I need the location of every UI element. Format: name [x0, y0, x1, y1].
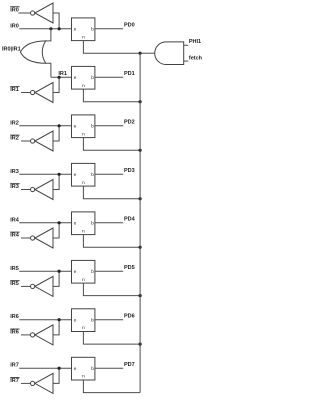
- wire: latch L0 output to PD0: [95, 28, 123, 30]
- wire: IR4 line into latch: [19, 222, 71, 224]
- svg-text:PD5: PD5: [124, 265, 135, 271]
- svg-text:b: b: [91, 318, 94, 323]
- wire: latch L4 output to PD4: [95, 222, 123, 224]
- svg-text:n: n: [82, 180, 85, 185]
- inverter U6 (output bubble, triangle): [30, 276, 53, 296]
- wire: IR0 line into latch: [19, 28, 71, 30]
- junction: enable row 6 on bus: [139, 343, 142, 346]
- svg-text:PD1: PD1: [124, 71, 135, 77]
- inverter U5 (output bubble, triangle): [30, 228, 53, 248]
- svg-text:fetch: fetch: [189, 55, 202, 61]
- wire: inverter U2 input up to IR1 line: [53, 77, 59, 92]
- net label nIR4 (complement of IR4, overline): [10, 232, 20, 239]
- inverter U4 (output bubble, triangle): [30, 180, 53, 200]
- svg-text:IR1: IR1: [10, 87, 19, 93]
- wire: nIR5 label to inverter bubble: [21, 285, 31, 287]
- latch L5 (D-latch box): [72, 260, 95, 283]
- svg-text:IR4: IR4: [10, 233, 20, 239]
- svg-text:b: b: [91, 27, 94, 32]
- wire: latch L1 output to PD1: [95, 76, 123, 78]
- wire: latch L2 output to PD2: [95, 125, 123, 127]
- wire: IR5 line into latch: [19, 270, 71, 272]
- wire: inverter U5 input up to IR4 line: [53, 223, 59, 238]
- svg-text:PD7: PD7: [124, 362, 135, 368]
- wire: nIR7 label to inverter bubble: [21, 382, 31, 384]
- svg-text:b: b: [91, 124, 94, 129]
- or-gate U9 (left-pointing, output IR0|IR1): [20, 41, 45, 63]
- latch L1 (D-latch box): [72, 66, 95, 89]
- svg-text:n: n: [82, 131, 85, 136]
- latch L6 (D-latch box): [72, 309, 95, 332]
- svg-text:n: n: [82, 34, 85, 39]
- svg-text:e: e: [74, 366, 77, 371]
- svg-text:PD3: PD3: [124, 168, 135, 174]
- wire: OR bottom input to IR1 line: [46, 63, 51, 77]
- svg-text:IR3: IR3: [10, 169, 19, 175]
- wire: OR top input to IR0 line: [46, 29, 51, 41]
- svg-text:e: e: [74, 269, 77, 274]
- svg-text:n: n: [82, 374, 85, 379]
- wire: latch L3 output to PD3: [95, 173, 123, 175]
- svg-text:n: n: [82, 277, 85, 282]
- svg-text:n: n: [82, 83, 85, 88]
- wire: vertical enable bus: [139, 53, 141, 392]
- svg-text:e: e: [74, 172, 77, 177]
- svg-text:b: b: [91, 221, 94, 226]
- junction: inverter tap on IR5 line: [58, 270, 61, 273]
- junction: enable row 5 on bus: [139, 294, 142, 297]
- wire: latch L7 enable pin to bus: [83, 380, 140, 393]
- svg-text:e: e: [74, 221, 77, 226]
- inverter U2 (output bubble, triangle): [30, 83, 53, 103]
- wire: inverter U1 input down to IR0 line: [53, 13, 59, 29]
- svg-text:IR5: IR5: [10, 281, 19, 287]
- wire: nIR3 label to inverter bubble: [21, 189, 31, 191]
- latch L2 (D-latch box): [72, 115, 95, 138]
- svg-text:IR2: IR2: [10, 136, 19, 142]
- svg-text:IR0: IR0: [10, 23, 19, 29]
- svg-text:b: b: [91, 75, 94, 80]
- wire: IR3 line into latch: [19, 173, 71, 175]
- latch L0 (D-latch box): [72, 18, 95, 41]
- junction: inverter tap on IR4 line: [58, 221, 61, 224]
- net label nIR0 (complement of IR0, overline): [10, 7, 19, 14]
- svg-text:e: e: [74, 318, 77, 323]
- junction: enable row 0 on bus: [139, 52, 142, 55]
- svg-text:e: e: [74, 124, 77, 129]
- wire: inverter U8 input up to IR7 line: [53, 368, 59, 383]
- svg-text:PD0: PD0: [124, 23, 135, 29]
- svg-text:IR0|IR1: IR0|IR1: [2, 47, 21, 53]
- junction: inverter tap on IR0 line: [58, 27, 61, 30]
- svg-text:IR0: IR0: [10, 8, 19, 14]
- junction: enable row 4 on bus: [139, 246, 142, 249]
- net label nIR6 (complement of IR6, overline): [10, 329, 19, 336]
- svg-text:IR2: IR2: [10, 120, 19, 126]
- svg-text:n: n: [82, 228, 85, 233]
- net label nIR7 (complement of IR7, overline): [10, 378, 19, 385]
- wire: AND input stub PHI1: [184, 44, 189, 46]
- junction: inverter tap on IR3 line: [58, 173, 61, 176]
- svg-text:PD4: PD4: [124, 217, 136, 223]
- wire: nIR6 label to inverter bubble: [21, 334, 31, 336]
- wire: latch L7 output to PD7: [95, 367, 123, 369]
- svg-text:e: e: [74, 75, 77, 80]
- wire: latch L5 output to PD5: [95, 270, 123, 272]
- wire: nIR4 label to inverter bubble: [21, 237, 31, 239]
- inverter U1 (output bubble, triangle): [30, 3, 53, 23]
- wire: latch L2 enable pin to bus: [83, 138, 140, 151]
- junction: inverter tap on IR6 line: [58, 318, 61, 321]
- wire: inverter U7 input up to IR6 line: [53, 320, 59, 335]
- wire: latch L1 enable pin to bus: [83, 89, 140, 102]
- net label nIR3 (complement of IR3, overline): [10, 184, 19, 191]
- svg-text:IR3: IR3: [10, 184, 19, 190]
- svg-text:IR4: IR4: [10, 217, 20, 223]
- wire: IR6 line into latch: [19, 319, 71, 321]
- svg-text:e: e: [74, 27, 77, 32]
- net label nIR5 (complement of IR5, overline): [10, 281, 19, 288]
- wire: AND input stub fetch: [184, 60, 189, 62]
- svg-text:PD6: PD6: [124, 314, 135, 320]
- wire: nIR2 label to inverter bubble: [21, 140, 31, 142]
- svg-text:PD2: PD2: [124, 120, 135, 126]
- wire: inverter U4 input up to IR3 line: [53, 174, 59, 189]
- svg-text:b: b: [91, 269, 94, 274]
- wire: IR1 line into latch: [51, 76, 72, 78]
- wire: latch L3 enable pin to bus: [83, 186, 140, 199]
- wire: inverter U3 input up to IR2 line: [53, 126, 59, 141]
- latch L3 (D-latch box): [72, 163, 95, 186]
- wire: inverter U6 input up to IR5 line: [53, 271, 59, 286]
- svg-text:IR7: IR7: [10, 378, 19, 384]
- junction: OR tap on IR0 line: [49, 27, 52, 30]
- inverter U3 (output bubble, triangle): [30, 131, 53, 151]
- latch L4 (D-latch box): [72, 212, 95, 235]
- svg-text:b: b: [91, 172, 94, 177]
- wire: nIR1 label to inverter bubble: [21, 92, 31, 94]
- net label nIR2 (complement of IR2, overline): [10, 135, 19, 142]
- junction: enable row 3 on bus: [139, 197, 142, 200]
- inverter U7 (output bubble, triangle): [30, 325, 53, 345]
- and-gate U10 (left-pointing, enable = PHI1 & fetch): [155, 42, 184, 65]
- svg-text:IR6: IR6: [10, 330, 19, 336]
- svg-text:IR7: IR7: [10, 363, 19, 369]
- wire: IR2 line into latch: [19, 125, 71, 127]
- wire: latch L4 enable pin to bus: [83, 235, 140, 248]
- junction: enable row 1 on bus: [139, 100, 142, 103]
- wire: AND output to enable bus: [140, 52, 155, 54]
- junction: enable row 2 on bus: [139, 149, 142, 152]
- wire: latch L0 enable pin to bus: [83, 41, 140, 54]
- junction: inverter tap on IR7 line: [58, 367, 61, 370]
- junction: inverter tap on IR2 line: [58, 124, 61, 127]
- wire: IR7 line into latch: [19, 367, 71, 369]
- inverter U8 (output bubble, triangle): [30, 373, 53, 393]
- svg-text:PHI1: PHI1: [189, 39, 201, 45]
- svg-text:IR6: IR6: [10, 314, 19, 320]
- net label nIR1 (complement of IR1, overline): [10, 87, 19, 94]
- wire: latch L6 enable pin to bus: [83, 332, 140, 345]
- svg-text:IR5: IR5: [10, 266, 19, 272]
- svg-text:b: b: [91, 366, 94, 371]
- wire: latch L5 enable pin to bus: [83, 283, 140, 296]
- wire: latch L6 output to PD6: [95, 319, 123, 321]
- svg-text:n: n: [82, 325, 85, 330]
- latch L7 (D-latch box): [72, 357, 95, 380]
- junction: inverter tap on IR1 line: [58, 76, 61, 79]
- wire: nIR0 label to inverter U1 bubble: [18, 12, 30, 14]
